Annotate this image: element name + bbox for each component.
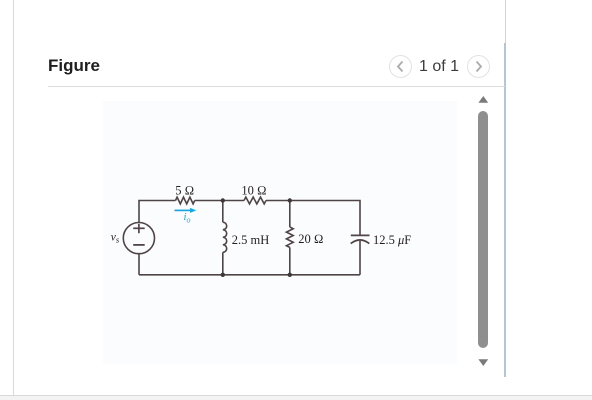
resistor 10Ω (244, 197, 266, 204)
wire top left segment (139, 201, 176, 223)
pagination label (404, 58, 474, 76)
wire top right segment (266, 201, 360, 235)
wire 20Ω branch lower (289, 247, 291, 274)
wire inductor branch lower (222, 252, 224, 274)
wire inductor branch upper (222, 201, 224, 223)
svg-text:5 Ω: 5 Ω (175, 183, 194, 197)
capacitor 12.5µF top plate (351, 234, 370, 236)
svg-text:20 Ω: 20 Ω (298, 232, 323, 246)
scrollbar up arrow (477, 95, 490, 104)
svg-text:10 Ω: 10 Ω (241, 184, 266, 198)
right panel border lower (504, 43, 506, 377)
source minus sign (133, 244, 145, 246)
right panel border upper (505, 0, 506, 43)
scrollbar thumb (478, 111, 488, 348)
pagination prev button (389, 55, 412, 78)
figure image background (103, 101, 457, 364)
node B top (288, 198, 292, 202)
voltage source vs (123, 223, 154, 254)
svg-text:io: io (184, 211, 191, 224)
svg-text:2.5 mH: 2.5 mH (232, 233, 269, 247)
inductor 2.5mH (223, 222, 227, 252)
svg-text:12.5 μF: 12.5 μF (373, 233, 411, 247)
left panel border (13, 0, 14, 396)
svg-text:vs: vs (111, 232, 120, 245)
pagination next button (467, 55, 490, 78)
wire between 5Ω and 10Ω (195, 200, 244, 202)
bottom bar (0, 395, 592, 400)
wire source to bottom (138, 254, 140, 275)
wire capacitor to bottom (359, 241, 361, 275)
node A top (221, 198, 225, 202)
source plus sign (133, 224, 145, 233)
wire 20Ω branch upper (289, 201, 291, 228)
node A bottom (221, 273, 225, 277)
wire bottom (139, 274, 360, 276)
node B bottom (288, 273, 292, 277)
resistor 20Ω (286, 227, 293, 247)
header divider (48, 86, 505, 87)
current arrow io (175, 208, 197, 213)
resistor 5Ω (176, 197, 195, 204)
scrollbar down arrow (477, 358, 490, 367)
title Figure (48, 56, 100, 76)
capacitor 12.5µF curved plate (351, 240, 370, 244)
